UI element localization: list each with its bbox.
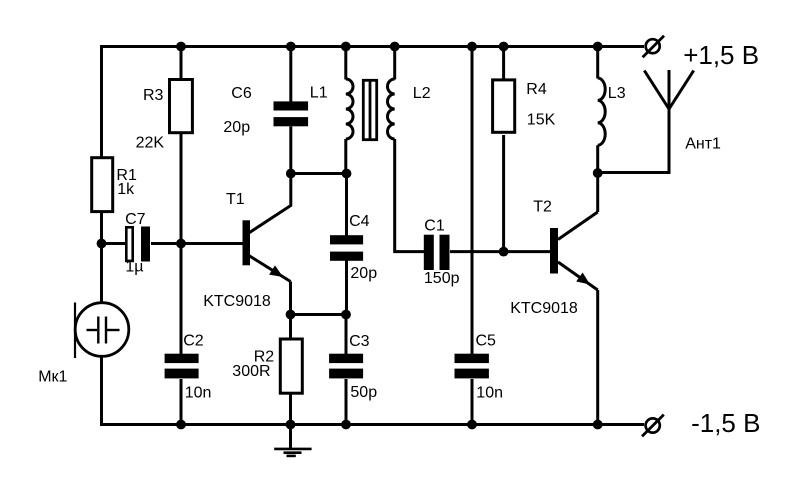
svg-text:1µ: 1µ [125,258,143,275]
inductor L2 [388,79,395,139]
node L2 top rail [390,42,400,52]
wire R4 to T2 base node [502,135,505,252]
node emitter row right [341,310,351,320]
wire left vertical from rail to R1 [100,45,103,158]
node collector row right [342,169,352,179]
wire C1 to T2 base [450,250,551,253]
terminal +1.5V [643,36,664,57]
wire R1 to base node [100,212,103,245]
svg-text:C7: C7 [125,211,146,228]
microphone Mk1 [75,303,129,359]
wire base node to C7 [100,242,126,245]
svg-text:22K: 22K [136,134,165,151]
transistor T2 [550,212,598,290]
svg-text:10n: 10n [185,384,212,401]
wire C6 to collector node [289,126,292,175]
svg-text:20p: 20p [350,265,377,282]
wire node to C3 [345,315,348,355]
wire rail to L2 [393,45,396,80]
svg-text:R4: R4 [526,81,547,98]
svg-text:50p: 50p [350,384,377,401]
wire R3 to base wire and down to C2 [180,134,183,355]
svg-text:C4: C4 [349,213,370,230]
wire C3 to bottom rail [345,379,348,426]
wire rail to R4 [502,45,505,79]
node collector row left [286,169,296,179]
svg-text:-1,5 В: -1,5 В [691,408,760,438]
svg-text:C2: C2 [183,333,204,350]
node L3 top rail [593,42,603,52]
svg-text:Ант1: Ант1 [685,136,721,153]
svg-text:+1,5 В: +1,5 В [683,40,759,70]
resistor R2 [280,339,302,393]
node R4 T2 base [499,247,509,257]
capacitor C6 [274,101,309,126]
svg-text:C6: C6 [231,85,252,102]
capacitor C5 [455,354,489,379]
node T2 emitter bottom rail [593,420,603,430]
svg-text:Мк1: Мк1 [38,368,67,385]
resistor R4 [493,80,515,132]
node C5 top rail [467,42,477,52]
svg-text:KTC9018: KTC9018 [510,300,578,317]
svg-text:10n: 10n [476,385,503,402]
svg-text:C3: C3 [349,333,370,350]
wire mic bottom lead [100,356,103,426]
wire collector node row [291,172,347,175]
wire T1 collector [248,174,291,234]
inductor L1 [346,79,353,139]
node emitter row left [286,310,296,320]
node R3 C2 base junction [176,239,186,249]
svg-text:L1: L1 [310,85,328,102]
wire R2 to bottom rail [289,394,292,426]
svg-text:L2: L2 [413,85,431,102]
wire antenna feed [598,70,669,173]
wire top supply rail [102,45,645,48]
antenna Ant1 [644,71,693,110]
svg-text:L3: L3 [608,85,626,102]
svg-text:15K: 15K [527,111,556,128]
wire mic top lead [100,244,103,304]
svg-text:150p: 150p [424,270,460,287]
wire T2 collector to antenna node [596,173,599,212]
node R3 top rail [176,42,186,52]
wire C7 to T1 base [151,242,243,245]
wire rail to L1 [344,45,347,80]
wire emitter node row [291,313,347,316]
wire L3 to antenna node [596,145,599,174]
svg-text:20p: 20p [223,119,250,136]
inductor L3 [598,78,606,145]
node R2 bottom rail [286,420,296,430]
node C6 top rail [286,42,296,52]
capacitor C3 [329,354,363,379]
terminal -1.5V [642,415,664,437]
wire C5 to bottom rail [471,379,474,426]
svg-text:R3: R3 [143,87,164,104]
wire rail to R3 [180,45,183,79]
wire collector node to C4 [345,174,348,237]
wire T2 emitter to bottom rail [596,290,599,426]
wire rail to C6 [289,45,292,102]
wire C2 to bottom rail [180,379,183,426]
wire node to R2 [289,315,292,338]
capacitor C7 [126,227,150,262]
capacitor C1 [424,235,450,270]
svg-text:C1: C1 [424,218,445,235]
node C5 bottom rail [467,420,477,430]
svg-text:300R: 300R [232,363,270,380]
capacitor C4 [330,235,363,261]
wire rail to C5 [471,45,474,355]
wire C4 to emitter node [345,260,348,316]
ground [274,425,311,456]
capacitor C2 [165,354,199,379]
wire rail to L3 [596,45,599,79]
wire L1 to collector node [344,139,347,175]
node C2 bottom rail [176,420,186,430]
transistor T1 [243,220,291,316]
node R4 top rail [499,42,509,52]
transformer core [363,80,376,139]
node C3 bottom rail [341,420,351,430]
wire bottom supply rail [102,423,645,426]
resistor R3 [170,80,193,133]
svg-text:KTC9018: KTC9018 [203,293,271,310]
node antenna L3 junction [593,168,603,178]
svg-text:T1: T1 [226,191,245,208]
node mic base junction [97,239,107,249]
svg-text:1k: 1k [117,181,135,198]
node L1 top rail [341,42,351,52]
wire L2 down and to C1 [395,139,425,252]
resistor R1 [92,158,113,212]
svg-text:T2: T2 [533,198,552,215]
svg-text:C5: C5 [476,332,497,349]
